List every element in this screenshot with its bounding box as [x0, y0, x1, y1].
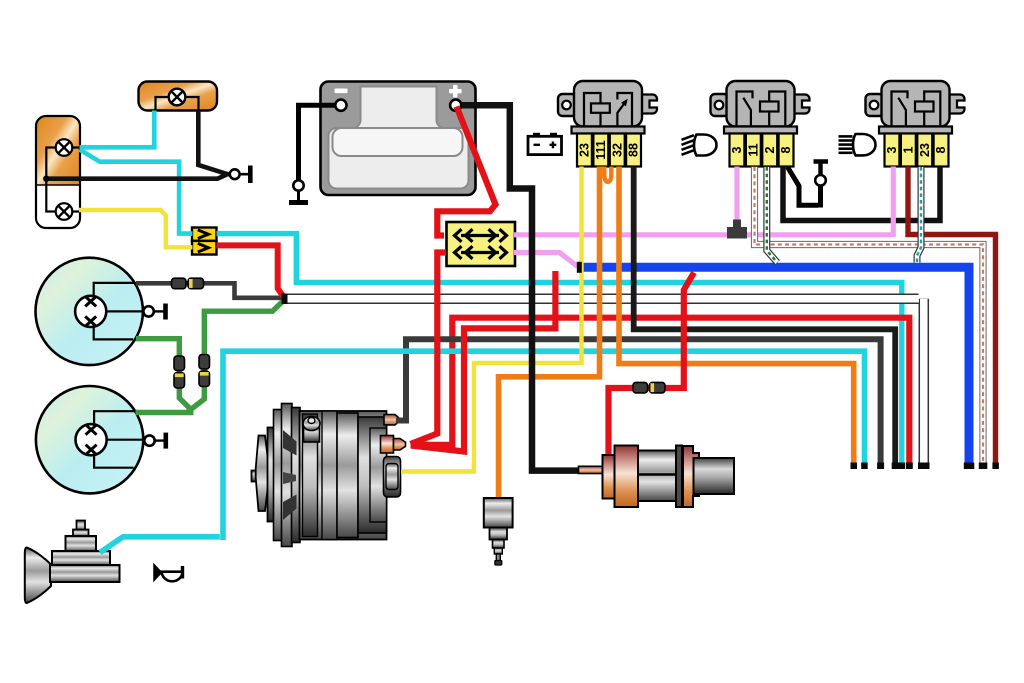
svg-text:8: 8	[779, 146, 793, 153]
low-beam headlamp icon	[682, 135, 717, 156]
wire white-green dashed (relay K2 pin2 to blue splice) outline	[767, 167, 778, 263]
wire black A (relay K1 pin88 to right tail)	[634, 167, 896, 466]
relay K2 (low-beam relay) pins 3,11,2,8	[711, 81, 810, 134]
battery positive terminal	[450, 100, 461, 111]
wire red (battery + to flasher row1)	[437, 107, 495, 236]
wire black (side lamp common to switch)	[46, 174, 229, 179]
wire black B (alternator D+ to right tail)	[396, 339, 881, 465]
horn symbol	[154, 565, 184, 582]
wire violet (relay K2 pin3 to pink bus)	[734, 167, 739, 229]
wire cyan A (turn signal circuit bus)	[217, 234, 902, 465]
wire yellow (side lamp to connector block)	[79, 210, 193, 247]
wire black battery cable (+ to ignition coil)	[462, 105, 583, 470]
wire cyan (front turn lamp to side lamp)	[80, 111, 193, 234]
spark plug / suppressor cap	[484, 498, 513, 565]
wire cyan B (horn bus)	[100, 351, 865, 552]
T-connector (violet tap)	[727, 220, 747, 239]
wire red A (alternator to right tail)	[411, 318, 910, 465]
alternator / generator	[252, 404, 406, 547]
headlight 2 (lower)	[36, 386, 143, 493]
wire white-teal dashed (relay K3 pin23 to blue) outline	[917, 167, 921, 263]
wire white-red dashed core	[755, 167, 984, 465]
horn	[25, 521, 120, 604]
wire white-red dashed fill	[755, 167, 984, 465]
headlight 1 (upper)	[35, 258, 142, 365]
battery	[321, 82, 476, 196]
svg-text:23: 23	[578, 143, 592, 157]
svg-text:32: 32	[610, 143, 624, 157]
svg-text:3: 3	[885, 146, 899, 153]
svg-text:23: 23	[918, 143, 932, 157]
wire white-teal dashed fill	[917, 167, 921, 263]
wire green (junction to headlight1/headlight2 via connectors)	[136, 302, 283, 413]
svg-text:88: 88	[627, 143, 641, 157]
ground (headlight 2)	[144, 435, 154, 445]
battery negative terminal	[335, 100, 346, 111]
svg-text:2: 2	[763, 146, 777, 153]
splice junction (white/red/gray/green)	[282, 294, 288, 305]
svg-text:3: 3	[730, 146, 744, 153]
wire red B (blue splice down to alternator)	[411, 271, 555, 452]
bullet connector (parking wire)	[172, 278, 187, 289]
turn-signal lamp (front, horizontal)	[139, 82, 218, 111]
wire black (relay K2 pin8 to relay K3 pin8, dipped beam ground)	[783, 167, 940, 221]
high-beam headlamp icon	[839, 134, 876, 155]
bullet connector (green, right)	[199, 355, 210, 370]
wire orange A (relay K1 pin32 to right tail)	[619, 167, 854, 466]
svg-text:111: 111	[594, 140, 608, 160]
wire maroon (relay K3 pin1 to right tail)	[908, 167, 996, 466]
ground (headlight 1)	[143, 306, 153, 316]
flasher / hazard unit	[447, 222, 516, 266]
relay K1 (turn-signal relay) pins 23,111,32,88	[558, 81, 657, 134]
wire orange jumper loop (pins 111-32)	[604, 167, 611, 182]
turn-signal / marker lamp (side, vertical)	[36, 116, 80, 228]
wire white-red dashed (relay K2 pin11 to right tail)	[755, 167, 984, 466]
wire orange B (relay K1 pin111 to spark plug)	[499, 167, 600, 501]
wire red (ignition coil to blue splice)	[609, 273, 695, 456]
wire white (parking light bus) outline	[285, 299, 924, 465]
relay K3 (high-beam relay) pins 3,1,23,8	[866, 81, 965, 134]
wire red (connector block to junction)	[217, 245, 284, 296]
wire white (parking light bus) fill	[284, 299, 924, 463]
svg-text:1: 1	[902, 146, 916, 153]
bullet connector (green, left)	[174, 356, 185, 371]
wire white-teal dashed core	[917, 167, 921, 263]
svg-text:8: 8	[934, 146, 948, 153]
wire pink (flasher row2 to blue splice)	[514, 253, 578, 267]
wire red (flasher row2 down to alternator)	[411, 253, 447, 445]
wire dark-gray (headlight1 parking filament to junction)	[136, 283, 282, 298]
dipped-beam foot switch	[788, 162, 829, 208]
wire end tips	[851, 463, 999, 470]
2-way connector block	[192, 228, 217, 255]
wire white-green dashed core	[767, 167, 778, 263]
svg-text:11: 11	[747, 143, 761, 156]
wire blue (main beam feed)	[580, 267, 969, 464]
battery icon label	[528, 133, 562, 155]
turn-signal switch	[230, 169, 240, 179]
blue wire end cap	[577, 262, 582, 273]
ignition coil	[579, 446, 735, 508]
wire black (front turn lamp to switch)	[198, 111, 227, 175]
wire yellow (relay K1 pin23 to alternator)	[401, 167, 582, 472]
wire white-green dashed fill	[767, 167, 778, 263]
wire pink (flasher row1 to relay K2 pin3 / relay K3 pin3)	[514, 167, 893, 238]
ground (battery negative)	[299, 105, 337, 180]
bullet connector (coil feed)	[633, 382, 648, 393]
